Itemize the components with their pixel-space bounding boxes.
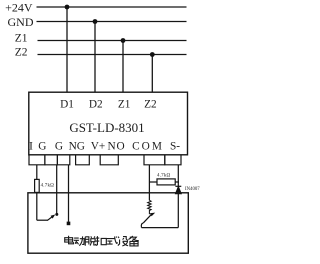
module U1 GST-LD-8301 box [29,92,188,155]
terminal box COM [144,155,165,165]
svg-text:GST-LD-8301: GST-LD-8301 [69,120,144,135]
svg-text:Z2: Z2 [144,99,157,111]
diode D 1N4007 [175,186,181,193]
svg-text:GND: GND [8,15,34,29]
svg-text:COM: COM [132,141,164,153]
terminal box I [29,155,45,165]
hanzi 脱 [85,236,95,245]
terminal box NG [76,155,90,165]
svg-text:I: I [29,141,33,153]
resistor R1 4.7k [35,179,40,192]
svg-text:S-: S- [170,141,180,153]
wire I down [36,165,38,220]
equipment box [28,193,188,253]
hanzi 电 [65,236,74,244]
svg-text:Z2: Z2 [15,46,28,58]
wire Z1 bus [38,40,187,42]
wire I to switch pivot [37,219,48,221]
hanzi 扣 [96,236,107,245]
switch K2 arrow tick [150,213,155,217]
switch K2 blade [141,214,151,227]
svg-text:NG: NG [69,141,85,153]
wire Z2 bus [38,54,187,56]
switch K1 blade with arrow [48,215,55,220]
equipment label: hand-drawn hanzi 电动脱扣式设备 [65,236,139,246]
svg-text:G: G [38,141,46,153]
node terminal square G2 stub [67,222,71,226]
wire G2 stub down [68,165,70,222]
svg-text:D2: D2 [89,99,103,111]
wire COM branch to R2 [149,181,157,183]
hanzi 备 [128,236,138,246]
svg-text:NO: NO [108,141,126,153]
coil L1 [148,200,151,214]
node junction +24V/D1 [65,5,70,10]
svg-text:Z1: Z1 [118,99,131,111]
wire diode to bottom [177,194,179,228]
terminal box G2 [57,155,69,165]
node junction GND/D2 [93,19,98,24]
terminal box G [45,155,58,165]
wire D1 drop [66,7,68,92]
wire S- down to diode [177,165,179,186]
terminal box NO [100,155,118,165]
hanzi 设 [118,237,128,246]
svg-text:4.7kΩ: 4.7kΩ [157,174,171,179]
wire R2 to S- wire [175,181,179,183]
hanzi 动 [74,236,85,245]
wire bottom horizontal to switch K2 [142,227,179,229]
wire Z1 drop [122,41,124,93]
svg-text:4.7kΩ: 4.7kΩ [41,183,55,188]
node contact dot G wire [55,213,58,216]
wire Z2 drop [151,55,153,93]
wire GND bus [37,21,187,23]
svg-text:IN4007: IN4007 [185,187,200,192]
terminal box S- [165,155,181,165]
wire G down [56,165,58,214]
svg-text:G: G [55,141,63,153]
svg-text:D1: D1 [60,99,74,111]
svg-text:Z1: Z1 [15,32,28,44]
hanzi 式 [107,236,118,244]
node junction Z2 [150,52,155,57]
wire +24V bus [37,6,187,8]
wire D2 drop [94,22,96,93]
wire COM down [148,165,150,201]
svg-text:V+: V+ [91,141,106,153]
node junction Z1 [121,38,126,43]
resistor R2 4.7k [157,179,175,185]
svg-text:+24V: +24V [5,1,33,15]
